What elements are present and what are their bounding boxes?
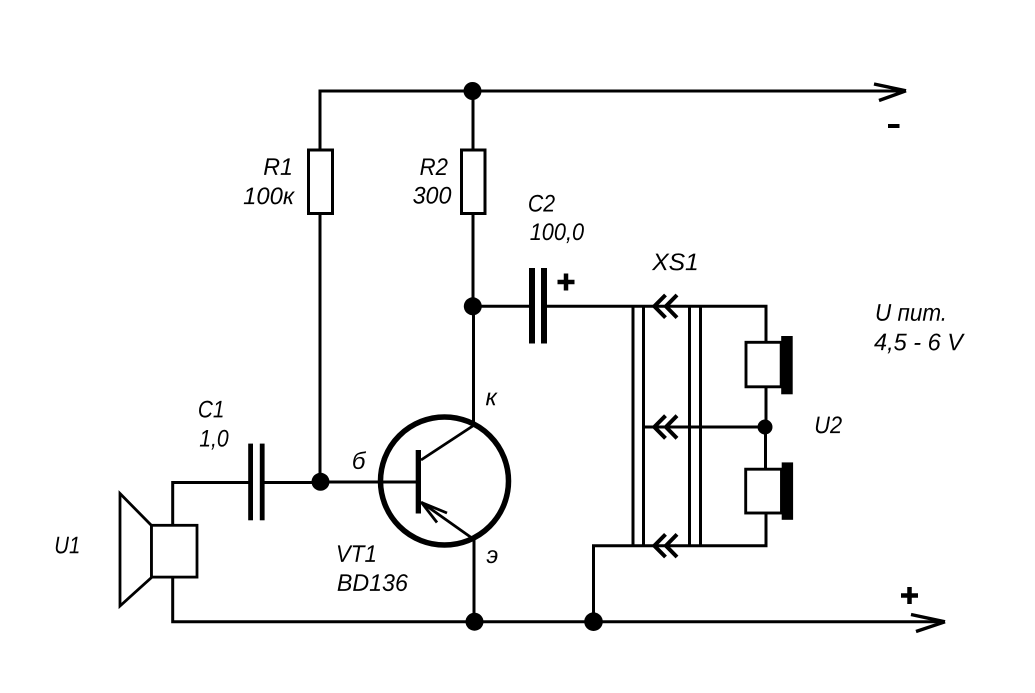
svg-text:C2: C2 <box>528 191 555 218</box>
svg-text:б: б <box>352 448 367 475</box>
svg-text:R1: R1 <box>263 154 293 181</box>
svg-text:XS1: XS1 <box>651 249 699 276</box>
svg-text:U1: U1 <box>54 532 80 559</box>
svg-text:300: 300 <box>413 183 453 210</box>
svg-text:к: к <box>485 384 498 411</box>
svg-text:4,5 - 6 V: 4,5 - 6 V <box>874 329 965 356</box>
svg-text:100к: 100к <box>243 183 296 210</box>
svg-text:U2: U2 <box>814 412 842 439</box>
svg-text:BD136: BD136 <box>337 570 409 597</box>
svg-text:100,0: 100,0 <box>530 219 585 246</box>
svg-text:э: э <box>486 542 498 569</box>
svg-text:C1: C1 <box>198 396 225 423</box>
svg-text:1,0: 1,0 <box>199 426 229 453</box>
svg-text:VT1: VT1 <box>336 541 377 568</box>
svg-text:R2: R2 <box>420 154 448 181</box>
svg-text:U пит.: U пит. <box>875 300 947 327</box>
